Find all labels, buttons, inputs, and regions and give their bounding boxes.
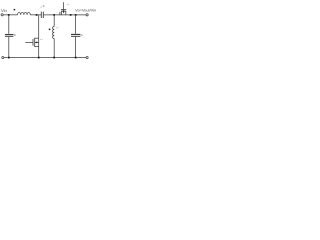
node rail M1 (junction dot) (38, 57, 40, 59)
node SW (junction dot) (36, 14, 38, 16)
wire L2 to ground rail (53, 39, 55, 58)
transistor M1 channel bar (34, 38, 36, 47)
capacitor Cout mark (81, 35, 82, 36)
transistor M2 gate tick (59, 12, 61, 15)
capacitor Cin bottom plate (5, 35, 14, 37)
wire Cout bottom (75, 37, 77, 58)
capacitor Cs (40, 12, 42, 18)
transistor M1 gate lead (25, 41, 33, 43)
transistor M2 gate bar (61, 8, 66, 10)
node rail Cin (junction dot) (8, 57, 10, 59)
transistor M2 drain lead (63, 2, 65, 11)
terminal GND left (2, 56, 4, 58)
terminal Vout (86, 14, 88, 16)
wire SW to M1 drain (38, 15, 40, 38)
capacitor Cout top plate (71, 34, 80, 36)
node rail Cout (junction dot) (75, 57, 77, 59)
svg-text:Vin: Vin (1, 8, 7, 13)
inductor L2 (53, 27, 55, 39)
label M2 (66, 3, 69, 6)
label M1 (39, 38, 42, 41)
node input (junction dot) (8, 14, 10, 16)
node L2 top (junction dot) (53, 14, 55, 16)
wire M1 drain-source lead (38, 38, 40, 57)
node Cout top (junction dot) (75, 14, 77, 16)
wire Cout top (75, 15, 77, 34)
capacitor Cout bottom plate (71, 35, 80, 37)
transistor M1 arrow (35, 41, 37, 43)
wire L1 to Cs (30, 14, 41, 16)
node M2 out (junction dot) (70, 14, 72, 16)
capacitor Cin top plate (5, 34, 14, 36)
wire Vin to L1 (3, 14, 17, 16)
wire Cin bottom (8, 37, 10, 58)
phase dot L2 (49, 29, 51, 31)
ground rail (4, 57, 86, 59)
transistor M2 channel bar (61, 10, 66, 12)
transistor M2 arrow (63, 11, 65, 14)
wire Cs to Vout rail (43, 14, 86, 16)
terminal Vin (1, 14, 3, 16)
node rail L2 (junction dot) (53, 57, 55, 59)
label L2 (55, 27, 58, 30)
transistor M2 stubs (60, 11, 62, 15)
wire node2 down to L2 (53, 15, 55, 27)
capacitor Cs label (40, 6, 43, 9)
transistor M1 gate bar (32, 39, 34, 46)
inductor L1 (18, 12, 31, 14)
wire Cin top (8, 15, 10, 34)
phase dot L1 (14, 9, 16, 11)
transistor M1 stubs (35, 37, 39, 39)
capacitor Cin mark (14, 34, 15, 35)
svg-text:Vo=Vout/Vin: Vo=Vout/Vin (75, 8, 96, 12)
terminal GND right (86, 56, 88, 58)
